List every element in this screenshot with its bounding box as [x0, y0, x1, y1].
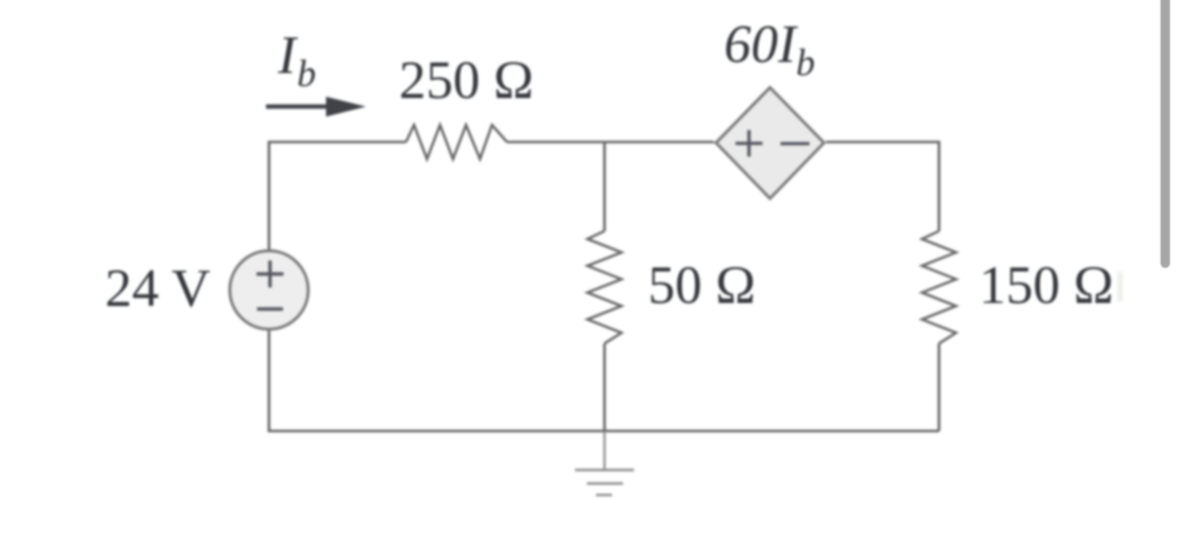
wire left-bottom segment [268, 330, 271, 432]
svg-text:b: b [796, 42, 815, 84]
ground [575, 431, 634, 495]
svg-text:250 Ω: 250 Ω [399, 50, 534, 110]
wire top-left segment [269, 142, 406, 250]
wire top-right segment [826, 142, 939, 231]
wire top-middle segment [507, 141, 714, 144]
wire middle-bottom segment [603, 344, 606, 432]
label Ib [277, 25, 316, 95]
node junction top-middle [603, 142, 606, 231]
svg-text:50 Ω: 50 Ω [648, 255, 756, 315]
svg-text:24 V: 24 V [105, 258, 211, 318]
voltage source 24 V [230, 251, 308, 329]
svg-text:150 Ω: 150 Ω [979, 255, 1114, 315]
current arrow Ib [266, 97, 366, 117]
svg-text:60I: 60I [724, 14, 799, 74]
wire bottom segment [268, 430, 939, 433]
resistor 150 ohm [922, 231, 956, 344]
faint print artifact right of 150 ohm [1117, 272, 1123, 302]
svg-text:b: b [297, 53, 316, 95]
resistor 50 ohm [588, 231, 622, 344]
svg-text:I: I [277, 25, 299, 85]
scrollbar thumb [1161, 0, 1171, 268]
resistor 250 ohm [406, 125, 507, 159]
wire right-bottom segment [938, 344, 941, 432]
label 60Ib [724, 14, 815, 84]
dependent source 60Ib (diamond) [716, 88, 824, 199]
